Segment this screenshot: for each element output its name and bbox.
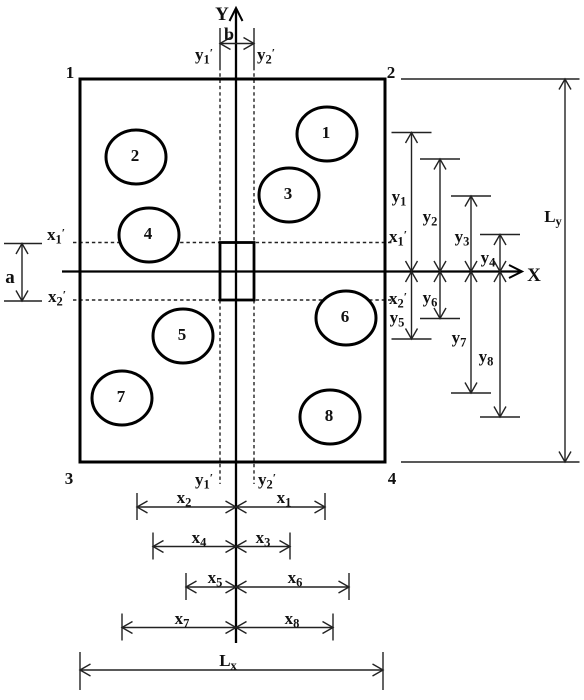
svg-text:a: a [5,267,15,288]
dimension y8 [479,272,520,418]
svg-text:4: 4 [144,224,153,243]
svg-text:2: 2 [131,146,140,165]
dashed construction line x2prime (horizontal) [73,299,392,301]
dimension b arrow [220,38,254,50]
label x1prime left [47,225,65,247]
dimension b extension ticks [220,28,254,67]
dimension y7 [451,272,491,394]
circle 4 [119,208,179,262]
circle 8 [300,390,360,444]
circle 2 [106,130,166,184]
svg-text:3: 3 [284,184,293,203]
dimension y5 [390,272,432,340]
svg-text:b: b [224,24,234,44]
label x1prime right [389,227,407,249]
dashed construction line y1prime (vertical) [219,67,221,484]
dimension y4 [480,235,520,272]
Y axis with arrow and label Y [215,4,242,643]
svg-text:5: 5 [178,325,187,344]
dimension x5 (left) and x6 (right) row [186,568,349,600]
plate rectangle (body outline) [80,79,385,462]
circle 1 [297,107,357,161]
dimension y3 [451,196,491,272]
Ly extension line top [401,78,580,80]
dimension y2 [420,159,460,272]
X axis with arrow and label X [62,265,541,286]
circle 3 [259,168,319,222]
label y1prime top [195,45,213,67]
svg-text:1: 1 [66,63,75,82]
corner label 2 [387,63,396,82]
dimension x4 (left) and x3 (right) row [153,528,290,560]
dimension Lx [80,651,383,690]
svg-text:X: X [527,265,541,286]
small central rectangle at origin [220,243,254,301]
dimension Ly [544,79,571,462]
corner label 4 [388,469,397,488]
dimension a arrow [16,244,28,302]
label x2prime right [389,289,407,311]
Ly extension line bottom [401,461,580,463]
corner label 1 [66,63,75,82]
svg-text:6: 6 [341,307,350,326]
label x2prime left [48,287,66,309]
label a [5,267,15,288]
dimension y1 [392,133,432,272]
svg-text:2: 2 [387,63,396,82]
label y2prime bottom [258,470,276,492]
svg-text:7: 7 [117,387,126,406]
circle 6 [316,291,376,345]
dimension x2 (left) and x1 (right) row [137,488,325,520]
corner label 3 [65,469,74,488]
dimension y6 [420,272,460,319]
dashed construction line x1prime (horizontal) [73,242,392,244]
svg-text:Y: Y [215,4,229,25]
dimension a extension ticks [4,244,42,302]
circle 5 [153,309,213,363]
label y1prime bottom [195,470,213,492]
svg-text:8: 8 [325,406,334,425]
circle 7 [92,371,152,425]
dashed construction line y2prime (vertical) [253,67,255,484]
dimension x7 (left) and x8 (right) row [122,609,333,641]
label y2prime top [257,45,275,67]
svg-text:4: 4 [388,469,397,488]
svg-text:3: 3 [65,469,74,488]
svg-text:1: 1 [322,123,331,142]
label b [224,24,234,44]
